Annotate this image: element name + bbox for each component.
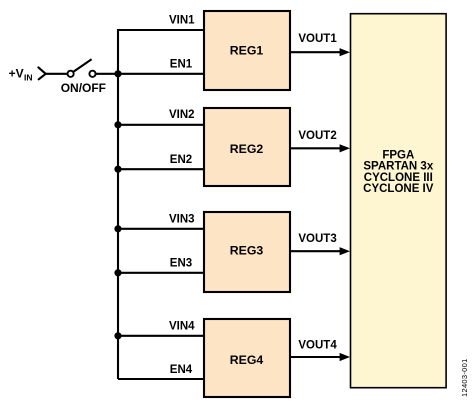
block REG4 [204, 319, 290, 397]
svg-text:VOUT1: VOUT1 [298, 33, 337, 45]
input terminal +VIN label [9, 67, 33, 83]
input terminal chevron [38, 67, 45, 79]
svg-text:CYCLONE IV: CYCLONE IV [363, 183, 434, 195]
wire from terminal to switch [46, 73, 68, 75]
wire VOUT2 with arrowhead [291, 144, 350, 152]
block FPGA [351, 14, 447, 388]
junction dot EN1 [114, 70, 121, 77]
switch S1 (ON/OFF) [68, 59, 96, 77]
svg-text:EN3: EN3 [170, 258, 192, 270]
wire VIN3 [118, 228, 204, 230]
svg-text:VIN3: VIN3 [169, 213, 195, 225]
svg-text:VIN4: VIN4 [169, 320, 195, 332]
svg-text:SPARTAN 3x: SPARTAN 3x [363, 161, 433, 173]
wire VIN4 [118, 335, 204, 337]
wire EN3 [118, 272, 204, 274]
junction dot VIN4 [114, 332, 121, 339]
block REG3 [204, 212, 290, 292]
junction dot VIN2 [114, 121, 121, 128]
junction dot EN2 [114, 166, 121, 173]
wire VIN1 (bus top corner to REG1) [118, 29, 204, 31]
svg-text:REG1: REG1 [230, 43, 264, 57]
wire VIN2 [118, 124, 204, 126]
svg-text:IN: IN [24, 72, 33, 82]
wire VOUT1 with arrowhead [291, 48, 350, 56]
wire from switch to bus [96, 73, 118, 75]
svg-text:ON/OFF: ON/OFF [61, 81, 106, 95]
svg-text:REG2: REG2 [230, 142, 264, 156]
wire EN1 [118, 73, 204, 75]
svg-text:EN2: EN2 [170, 154, 192, 166]
svg-text:VOUT3: VOUT3 [298, 233, 336, 245]
wire VOUT3 with arrowhead [291, 247, 350, 255]
svg-text:EN1: EN1 [170, 58, 193, 70]
svg-text:+V: +V [9, 67, 24, 81]
wire EN4 (bus bottom corner to REG4) [118, 378, 204, 380]
wire VOUT4 with arrowhead [291, 353, 350, 361]
svg-text:VOUT4: VOUT4 [298, 340, 337, 352]
svg-text:VIN1: VIN1 [169, 15, 195, 27]
svg-text:12403-001: 12403-001 [460, 358, 469, 397]
wire EN2 [118, 168, 204, 170]
block REG2 [204, 108, 290, 186]
svg-text:EN4: EN4 [170, 364, 193, 376]
svg-text:CYCLONE III: CYCLONE III [364, 172, 433, 184]
svg-text:VOUT2: VOUT2 [298, 130, 336, 142]
block REG1 [204, 11, 290, 90]
svg-text:FPGA: FPGA [382, 149, 414, 161]
svg-text:REG3: REG3 [230, 243, 264, 257]
vertical supply bus [118, 30, 204, 379]
junction dot VIN3 [114, 225, 121, 232]
junction dot EN3 [114, 269, 121, 276]
svg-text:REG4: REG4 [230, 353, 264, 367]
svg-text:VIN2: VIN2 [169, 109, 195, 121]
